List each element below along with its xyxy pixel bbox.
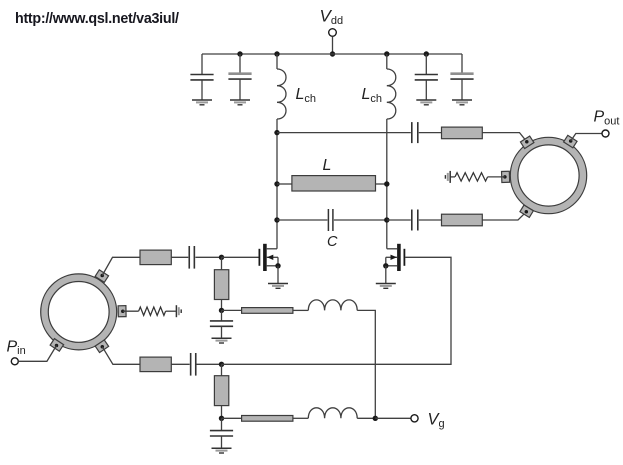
capacitor C4 bypass <box>450 54 473 100</box>
wire lower output <box>387 219 411 221</box>
microstrip input upper <box>140 250 171 265</box>
ground output resistor <box>445 171 450 183</box>
terminal tab input balun bottom-right <box>95 340 108 353</box>
wire Q2 gate node to strip <box>221 364 223 375</box>
capacitor input coupling lower <box>191 353 196 376</box>
wire Pout lead <box>571 134 602 142</box>
wire Pin lead <box>18 346 56 362</box>
wire Q1 gate lead <box>222 256 259 258</box>
ground Q1 bias cap <box>212 338 232 343</box>
capacitor Q2 bias shunt <box>210 418 233 448</box>
terminal tab output balun top-right <box>564 135 577 148</box>
inductor L microstrip <box>292 176 376 191</box>
transistor Q1 MOSFET <box>259 244 280 283</box>
capacitor C2 bypass <box>228 54 251 100</box>
label Vg <box>428 410 445 429</box>
label Pout <box>594 109 620 128</box>
terminal tab output balun left <box>502 171 510 182</box>
wire bias1 mid <box>293 309 308 311</box>
node Q2 gate junction <box>219 362 224 367</box>
capacitor output coupling upper <box>412 122 418 143</box>
node C3 rail junction <box>424 51 429 56</box>
ground C2 <box>230 100 250 105</box>
resistor output termination <box>455 173 488 181</box>
wire lower output to strip <box>419 219 442 221</box>
ground C1 <box>192 100 212 105</box>
terminal tab input balun bottom-left <box>50 339 63 352</box>
wire input upper to gate node <box>195 256 221 258</box>
label Vdd <box>320 6 344 27</box>
wire C right lead <box>334 219 387 221</box>
terminal Pout <box>602 130 609 137</box>
transistor Q2 MOSFET <box>383 244 404 283</box>
terminal tab output balun bottom-left <box>520 205 533 217</box>
node L right junction <box>384 181 389 186</box>
node Lch1 rail junction <box>274 51 279 56</box>
capacitor input coupling upper <box>189 246 194 269</box>
inductor Lch1 choke <box>277 54 286 133</box>
wire upper output from left drain <box>277 132 411 134</box>
node Q2 bias junction <box>219 416 224 421</box>
label L <box>323 157 332 174</box>
svg-text:http://www.qsl.net/va3iul/: http://www.qsl.net/va3iul/ <box>15 11 179 27</box>
terminal tab output balun top-left <box>520 136 533 149</box>
capacitor Q1 bias shunt <box>210 310 233 337</box>
wire bias1 lead <box>222 309 242 311</box>
wire Q1 strip to bias node <box>221 300 223 311</box>
node C left junction <box>274 217 279 222</box>
microstrip bias lower <box>242 416 293 422</box>
label Lch2 <box>362 86 383 105</box>
terminal tab input balun right <box>118 306 126 317</box>
wire lower output to balun <box>482 212 526 220</box>
wire input lower to node <box>196 363 221 365</box>
wire bias1 to Vg column <box>357 310 375 418</box>
wire bias2 lead <box>222 417 242 419</box>
wire Vdd lead <box>332 36 334 54</box>
wire input resistor lead <box>123 310 139 312</box>
wire L right lead <box>376 183 387 185</box>
label C <box>327 234 338 250</box>
inductor Lch2 choke <box>387 54 396 119</box>
wire upper output to balun <box>482 133 527 142</box>
ground Q1 source <box>268 284 288 289</box>
wire right drain column <box>386 119 388 249</box>
wire bias2 to Vg node <box>357 417 375 419</box>
microstrip output lower <box>442 214 483 226</box>
wire Vdd supply rail <box>202 53 462 55</box>
wire Q2 strip to bias node <box>221 406 223 419</box>
transformer output balun ring <box>510 137 586 213</box>
wire Q1 gate node to strip <box>221 257 223 269</box>
node Vg junction <box>373 416 378 421</box>
ground C3 <box>416 100 436 105</box>
wire input lower mid <box>171 363 189 365</box>
node Q1 gate junction <box>219 255 224 260</box>
capacitor C <box>328 209 333 231</box>
label Lch1 <box>296 86 317 105</box>
Vdd terminal <box>329 29 337 37</box>
resistor input termination <box>139 307 166 315</box>
resistor Q1 gate strip <box>214 270 228 300</box>
node Vdd rail junction <box>330 51 335 56</box>
ground Q2 source <box>376 284 396 289</box>
ground Q2 bias cap <box>212 448 232 453</box>
ground input resistor <box>176 305 181 317</box>
node C right junction <box>384 217 389 222</box>
text URL qsl.net <box>15 11 179 27</box>
microstrip bias upper <box>242 308 293 314</box>
microstrip input lower <box>140 357 171 372</box>
wire output resistor lead <box>488 176 505 178</box>
wire output resistor to ground <box>450 176 455 178</box>
wire input lower from balun <box>102 347 140 365</box>
wire Vg lead <box>375 417 411 419</box>
microstrip output upper <box>442 127 483 139</box>
svg-text:C: C <box>327 234 338 250</box>
label Pin <box>7 338 26 357</box>
wire upper output to strip <box>419 132 442 134</box>
wire input upper from balun <box>102 257 140 275</box>
capacitor C1 bypass <box>190 54 213 100</box>
wire input resistor gnd lead <box>166 310 177 312</box>
terminal Vg <box>411 415 418 422</box>
terminal Pin <box>11 358 18 365</box>
wire L left lead <box>277 183 292 185</box>
wire left drain column <box>276 133 278 249</box>
svg-text:L: L <box>323 157 332 174</box>
node C2 rail junction <box>237 51 242 56</box>
node L left junction <box>274 181 279 186</box>
capacitor C3 bypass <box>415 54 438 100</box>
node Q1 bias junction <box>219 308 224 313</box>
resistor Q2 gate strip <box>214 376 228 406</box>
wire C left lead <box>277 219 327 221</box>
wire input upper mid <box>171 256 188 258</box>
transformer input balun ring <box>41 274 117 350</box>
wire bias2 mid <box>293 417 308 419</box>
inductor bias lower <box>308 408 357 419</box>
ground C4 <box>452 100 472 105</box>
wire Q2 gate route <box>222 257 452 364</box>
capacitor output coupling lower <box>412 210 418 231</box>
node left drain / output tap <box>274 130 279 135</box>
terminal tab input balun top <box>95 270 108 283</box>
inductor bias upper <box>308 300 357 311</box>
node Lch2 rail junction <box>384 51 389 56</box>
